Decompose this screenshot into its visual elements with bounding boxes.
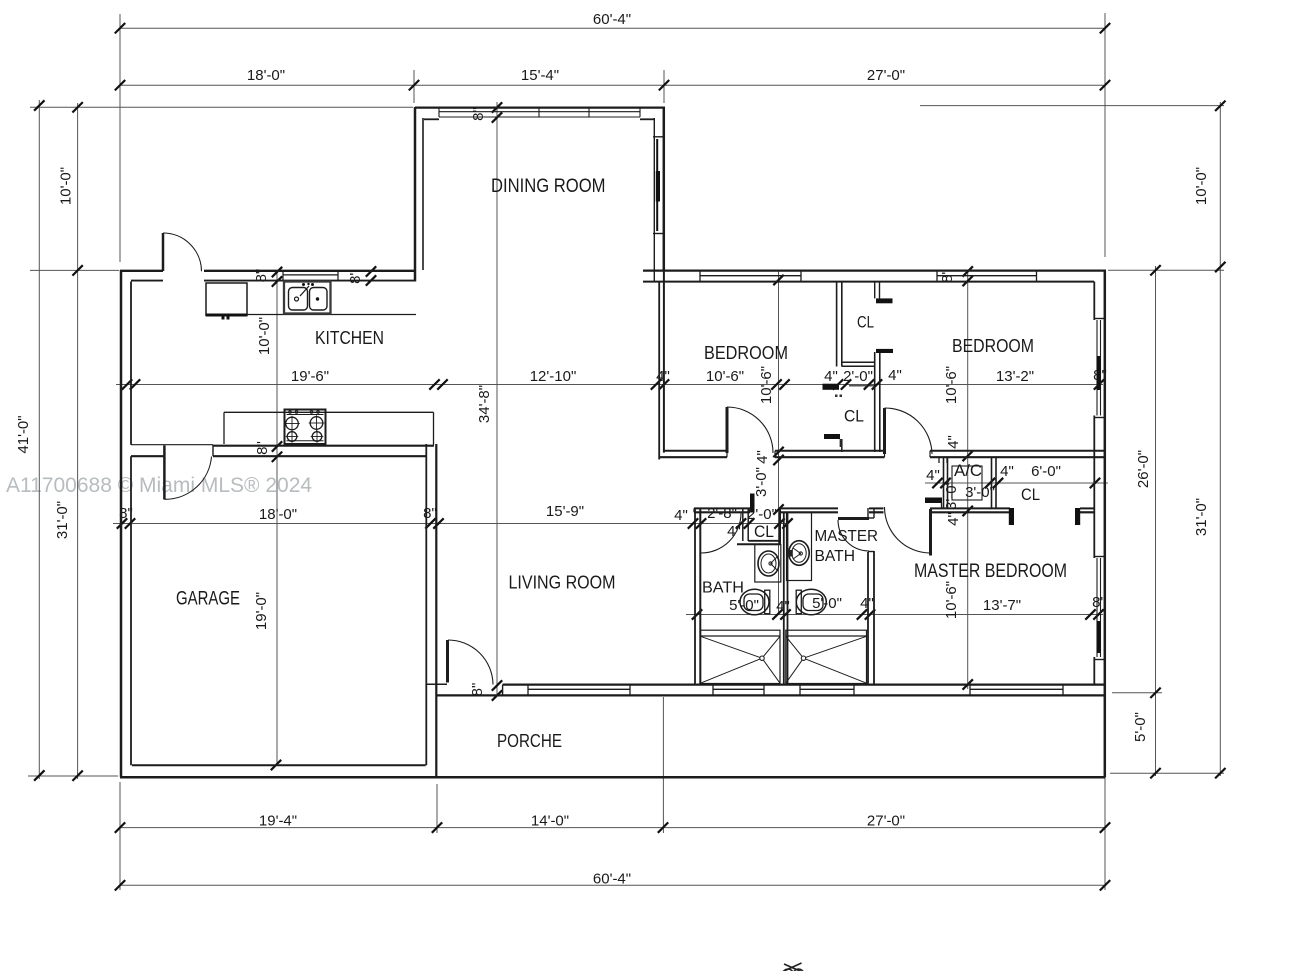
svg-text:60'-4": 60'-4" bbox=[593, 11, 631, 28]
svg-text:10'-6": 10'-6" bbox=[943, 581, 960, 619]
svg-text:8": 8" bbox=[470, 107, 487, 121]
svg-text:27'-0": 27'-0" bbox=[867, 813, 905, 830]
svg-text:4": 4" bbox=[860, 595, 874, 612]
svg-text:BEDROOM: BEDROOM bbox=[704, 343, 788, 363]
svg-text:4": 4" bbox=[945, 435, 962, 449]
svg-text:10'-0": 10'-0" bbox=[58, 167, 75, 205]
svg-text:4": 4" bbox=[824, 368, 838, 385]
svg-text:8": 8" bbox=[423, 505, 437, 522]
svg-text:6'-0": 6'-0" bbox=[1031, 463, 1061, 480]
svg-text:26'-0": 26'-0" bbox=[1135, 450, 1152, 488]
svg-text:19'-6": 19'-6" bbox=[291, 368, 329, 385]
svg-text:27'-0": 27'-0" bbox=[867, 67, 905, 84]
svg-text:4": 4" bbox=[754, 450, 771, 464]
svg-text:31'-0": 31'-0" bbox=[1193, 498, 1210, 536]
svg-text:13'-2": 13'-2" bbox=[996, 368, 1034, 385]
svg-text:18'-0": 18'-0" bbox=[247, 67, 285, 84]
svg-text:12'-10": 12'-10" bbox=[530, 368, 577, 385]
svg-text:BEDROOM: BEDROOM bbox=[952, 336, 1034, 356]
svg-text:4": 4" bbox=[674, 507, 688, 524]
svg-text:13'-7": 13'-7" bbox=[983, 597, 1021, 614]
svg-text:DINING ROOM: DINING ROOM bbox=[491, 176, 606, 197]
svg-text:8": 8" bbox=[347, 270, 364, 284]
svg-text:10'-6": 10'-6" bbox=[706, 368, 744, 385]
svg-text:A/C: A/C bbox=[954, 461, 982, 480]
svg-text:3'-0": 3'-0" bbox=[753, 467, 770, 497]
svg-text:5'-0": 5'-0" bbox=[1132, 712, 1149, 742]
svg-text:10'-0": 10'-0" bbox=[256, 317, 273, 355]
svg-text:CL: CL bbox=[844, 407, 864, 426]
svg-text:41'-0": 41'-0" bbox=[15, 415, 32, 453]
svg-text:4": 4" bbox=[888, 367, 902, 384]
svg-text:10'-6": 10'-6" bbox=[758, 366, 775, 404]
svg-text:BATH: BATH bbox=[815, 548, 856, 565]
svg-text:18'-0": 18'-0" bbox=[259, 506, 297, 523]
svg-text:19'-0": 19'-0" bbox=[253, 592, 270, 630]
svg-text:CL: CL bbox=[857, 313, 874, 332]
svg-text:4": 4" bbox=[945, 512, 962, 526]
svg-text:4": 4" bbox=[1000, 463, 1014, 480]
svg-text:10'-6": 10'-6" bbox=[943, 366, 960, 404]
svg-text:CL: CL bbox=[754, 522, 774, 541]
svg-text:34'-8": 34'-8" bbox=[476, 385, 493, 423]
svg-text:60'-4": 60'-4" bbox=[593, 871, 631, 888]
svg-text:BATH: BATH bbox=[702, 580, 744, 597]
svg-text:A11700688 © Miami MLS® 2024: A11700688 © Miami MLS® 2024 bbox=[6, 474, 312, 497]
svg-text:8": 8" bbox=[254, 441, 271, 455]
svg-text:KITCHEN: KITCHEN bbox=[315, 327, 384, 348]
svg-text:3'-0": 3'-0" bbox=[965, 484, 995, 501]
svg-text:GARAGE: GARAGE bbox=[176, 588, 240, 610]
svg-text:5'-0": 5'-0" bbox=[812, 595, 842, 612]
svg-text:LIVING ROOM: LIVING ROOM bbox=[509, 572, 616, 593]
svg-text:CL: CL bbox=[1021, 485, 1040, 504]
svg-text:PORCHE: PORCHE bbox=[497, 731, 562, 751]
svg-text:10'-0": 10'-0" bbox=[1193, 167, 1210, 205]
svg-text:19'-4": 19'-4" bbox=[259, 813, 297, 830]
svg-text:31'-0": 31'-0" bbox=[54, 501, 71, 539]
svg-text:MASTER BEDROOM: MASTER BEDROOM bbox=[914, 561, 1067, 582]
svg-text:4": 4" bbox=[926, 467, 940, 484]
svg-text:2'-0": 2'-0" bbox=[843, 368, 873, 385]
svg-text:15'-4": 15'-4" bbox=[521, 67, 559, 84]
svg-text:15'-9": 15'-9" bbox=[546, 503, 584, 520]
svg-text:MASTER: MASTER bbox=[815, 528, 879, 545]
svg-text:14'-0": 14'-0" bbox=[531, 813, 569, 830]
